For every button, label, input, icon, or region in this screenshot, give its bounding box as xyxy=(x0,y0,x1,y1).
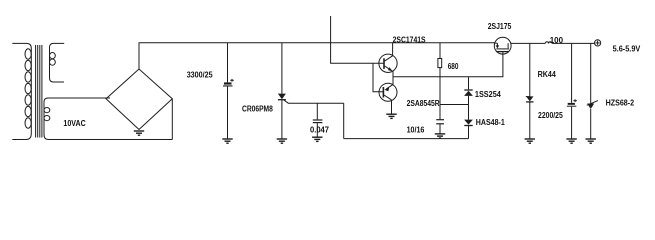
capacitor C3 bottom lead xyxy=(571,107,573,139)
diode D1 1SS254 top lead xyxy=(468,77,470,90)
capacitor 0.047 bottom lead xyxy=(316,123,318,137)
wire: 680/cap node to diode node xyxy=(440,104,469,106)
wire to terminal xyxy=(552,42,594,44)
svg-text:10VAC: 10VAC xyxy=(63,119,85,128)
wire: MOSFET drain out to terminal xyxy=(511,42,545,44)
svg-text:2SJ175: 2SJ175 xyxy=(488,22,512,31)
output terminal xyxy=(595,40,601,46)
bridge rectifier xyxy=(106,69,172,130)
thyristor CR06PM8 anode lead xyxy=(281,43,283,94)
diode RK44 anode tick xyxy=(526,96,530,98)
wire: bridge top to rail xyxy=(138,43,140,69)
wire: drop to Q2 base xyxy=(373,63,383,91)
wire: between diodes xyxy=(468,96,470,120)
svg-text:1SS254: 1SS254 xyxy=(475,90,501,99)
plus mark C3 xyxy=(573,99,577,102)
zener D3 diagonal bar xyxy=(587,101,598,106)
capacitor C1 3300/25 plates xyxy=(223,82,233,86)
resistor R1 680 body xyxy=(438,59,442,68)
capacitor C1 bottom lead xyxy=(227,87,229,139)
diode RK44 top lead xyxy=(529,43,531,96)
diode D2 HAS48-1 cathode bar xyxy=(464,125,472,127)
capacitor 10/16 bottom lead xyxy=(439,124,441,133)
wire: emitters node to MOSFET gate xyxy=(393,54,503,76)
wire: bridge right corner down to bottom wire xyxy=(171,99,173,140)
transistor Q2 2SA8545R xyxy=(379,83,397,101)
svg-text:CR06PM8: CR06PM8 xyxy=(242,105,273,114)
svg-text:HZS68-2: HZS68-2 xyxy=(606,98,635,107)
ground under CR06PM8 xyxy=(277,139,287,143)
thyristor CR06PM8 cathode bar xyxy=(278,99,286,101)
diode RK44 triangle (pointing down) xyxy=(526,96,533,101)
svg-text:RK44: RK44 xyxy=(538,70,557,79)
transformer secondary winding B (bottom) xyxy=(44,98,172,140)
capacitor C1 3300/25 lead xyxy=(227,43,229,83)
plus mark C1 xyxy=(230,79,234,82)
diode D1 1SS254 triangle (pointing up) xyxy=(464,91,473,96)
ground under 10/16 xyxy=(435,134,445,138)
ground under bridge xyxy=(134,131,144,136)
wire: bottom rail xyxy=(344,138,469,140)
svg-text:680: 680 xyxy=(448,62,459,71)
capacitor 10/16 plates xyxy=(436,120,444,124)
svg-text:2SA8545R: 2SA8545R xyxy=(407,99,440,108)
zener D3 bottom lead xyxy=(590,109,592,139)
ground under RK44 xyxy=(525,139,535,143)
transformer core xyxy=(36,45,42,138)
svg-text:5.6-5.9V: 5.6-5.9V xyxy=(613,44,641,53)
thyristor cathode lead xyxy=(281,100,283,139)
capacitor C3 2200/25 top lead xyxy=(571,43,573,103)
MOSFET U1 2SJ175 xyxy=(494,37,511,54)
transformer T1 primary winding xyxy=(12,43,31,139)
diode RK44 bottom lead xyxy=(529,102,531,138)
resistor R1 680 top lead xyxy=(439,43,441,59)
diode D2 bottom lead xyxy=(468,126,470,139)
wire: riser to Q1 base xyxy=(331,16,384,63)
diode RK44 cathode bar xyxy=(526,101,533,103)
wire: top rail xyxy=(139,42,496,44)
svg-text:2200/25: 2200/25 xyxy=(538,111,563,120)
ground under zener xyxy=(586,139,596,143)
svg-text:0.047: 0.047 xyxy=(310,125,330,134)
transistor Q1 2SC1741S xyxy=(379,54,397,72)
zener D3 HZS68-2 top lead xyxy=(590,43,592,103)
ground under C3 xyxy=(566,139,576,143)
zener D3 triangle (pointing down) xyxy=(587,104,594,110)
svg-text:3300/25: 3300/25 xyxy=(187,70,213,79)
diode D1 1SS254 cathode bar xyxy=(464,89,472,91)
ground under 0.047 xyxy=(312,137,322,141)
svg-text:10/16: 10/16 xyxy=(407,125,425,134)
ground under C1 xyxy=(222,139,232,143)
resistor R1 bottom lead down to capacitor 10/16 xyxy=(439,68,441,120)
capacitor C3 2200/25 plates xyxy=(567,103,576,107)
resistor .100 squiggle xyxy=(545,42,552,44)
capacitor 0.047 top lead xyxy=(316,103,318,119)
svg-text:HAS48-1: HAS48-1 xyxy=(476,118,505,127)
ground under Q2 xyxy=(386,114,396,118)
capacitor 0.047 plates xyxy=(313,120,323,123)
wire: Q2 collector to ground xyxy=(391,100,393,114)
thyristor gate wire xyxy=(284,100,344,103)
wire: Q1 collector to rail xyxy=(392,43,394,56)
wire: Q1 emitter down / Q2 emitter up xyxy=(392,71,394,84)
svg-text:.100: .100 xyxy=(548,36,564,45)
transformer secondary winding A (top) xyxy=(50,43,65,82)
svg-text:2SC1741S: 2SC1741S xyxy=(393,35,427,44)
wire: gate node drop to bottom rail xyxy=(343,103,345,138)
diode D2 HAS48-1 triangle (pointing down) xyxy=(464,120,473,125)
thyristor CR06PM8 triangle xyxy=(278,94,286,100)
